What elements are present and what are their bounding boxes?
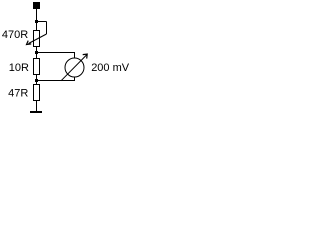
- ground rail: [30, 111, 42, 113]
- wire R1 bottom to node B: [36, 75, 38, 85]
- wire wiper loop horizontal: [37, 21, 47, 23]
- background: [0, 0, 133, 119]
- resistor R1 body 10R: [34, 59, 40, 75]
- wire R2 bottom to ground: [36, 101, 38, 112]
- svg-text:470R: 470R: [2, 29, 28, 41]
- wire node A to meter top: [37, 53, 75, 59]
- svg-text:47R: 47R: [8, 87, 28, 99]
- node B junction dot: [35, 79, 38, 82]
- node junction at wiper tap: [35, 20, 38, 23]
- svg-text:200 mV: 200 mV: [91, 62, 130, 74]
- voltmeter needle arrowhead: [83, 54, 88, 59]
- potentiometer wiper arrowhead: [27, 41, 32, 45]
- svg-text:10R: 10R: [9, 62, 29, 74]
- wire pot bottom to node A: [36, 47, 38, 59]
- wire node B to meter bottom: [37, 77, 75, 81]
- wire wiper loop vertical: [46, 22, 48, 35]
- potentiometer wiper arrow line: [29, 34, 47, 44]
- voltmeter M1 circle: [65, 58, 84, 77]
- node A junction dot: [35, 51, 38, 54]
- wire terminal to pot top: [36, 9, 38, 31]
- potentiometer RV1 body: [34, 31, 40, 47]
- resistor R2 body 47R: [34, 85, 40, 101]
- terminal (input pin, filled square): [33, 2, 40, 9]
- voltmeter needle arrow line: [61, 55, 87, 81]
